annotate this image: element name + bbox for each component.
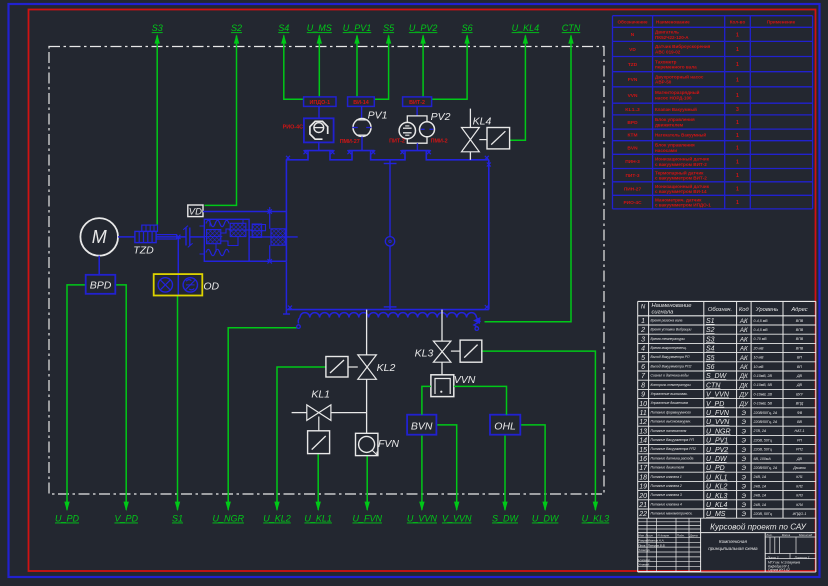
wire sensor1 to pipe (318, 142, 320, 150)
block IPDO-1 (304, 97, 336, 107)
svg-text:насосами: насосами (655, 148, 677, 153)
svg-text:Э: Э (742, 484, 747, 491)
svg-text:Иванов А.А.: Иванов А.А. (648, 538, 665, 542)
wire U_KL2 (263, 367, 326, 524)
svg-text:ДУ: ДУ (739, 392, 749, 399)
svg-text:Питание манометрическ.: Питание манометрическ. (651, 512, 693, 516)
svg-text:U_PV1: U_PV1 (343, 23, 372, 33)
svg-text:АК: АК (739, 355, 748, 362)
svg-text:4: 4 (641, 346, 645, 353)
svg-text:Наименование: Наименование (656, 20, 690, 25)
gauge PV1 (340, 106, 388, 150)
svg-text:VD: VD (629, 47, 636, 53)
svg-text:KL3: KL3 (415, 348, 434, 360)
svg-text:ИПДО-1: ИПДО-1 (310, 100, 331, 106)
actuator KL4 (479, 128, 509, 149)
svg-text:220В, 50Гц: 220В, 50Гц (753, 438, 772, 442)
svg-text:U_FVN: U_FVN (706, 410, 730, 417)
svg-text:ПИТ-3: ПИТ-3 (625, 173, 639, 179)
svg-text:Обознач.: Обознач. (708, 307, 732, 313)
svg-text:Время уставки Вибрации: Время уставки Вибрации (651, 328, 692, 332)
wire U_DW (520, 425, 560, 524)
svg-text:0-4,5 мВ: 0-4,5 мВ (754, 319, 769, 323)
svg-text:U_DW: U_DW (706, 456, 728, 463)
svg-text:U_DW: U_DW (532, 514, 560, 524)
wire shaft to OD (177, 237, 179, 296)
dashed white frame (49, 47, 604, 495)
svg-text:10 мВ: 10 мВ (754, 356, 764, 360)
svg-text:Применение: Применение (767, 20, 796, 25)
svg-text:KL1..3: KL1..3 (625, 107, 640, 113)
wire U_PV2 (409, 23, 438, 97)
wire S2 (205, 23, 243, 205)
svg-text:ПК52Ч22-120-А: ПК52Ч22-120-А (655, 35, 689, 40)
component table (613, 16, 813, 209)
svg-text:S5: S5 (383, 23, 395, 33)
block OD (yellow) (154, 274, 220, 295)
chamber bottom (286, 306, 488, 310)
svg-text:1: 1 (736, 200, 739, 206)
svg-text:24В, 1А: 24В, 1А (753, 484, 767, 488)
svg-text:Питание клапана 3: Питание клапана 3 (651, 493, 682, 497)
svg-text:CTN: CTN (562, 23, 581, 33)
gauge PV2 (389, 106, 450, 150)
svg-text:Питание Вакуумметра РП2: Питание Вакуумметра РП2 (651, 447, 696, 451)
svg-text:U_MS: U_MS (307, 23, 332, 33)
svg-text:3: 3 (641, 336, 645, 343)
svg-text:19: 19 (639, 484, 647, 491)
svg-text:22: 22 (638, 511, 647, 518)
title block (638, 518, 816, 572)
svg-text:Э: Э (742, 511, 747, 518)
svg-text:Питание клапана 2: Питание клапана 2 (651, 484, 682, 488)
svg-text:11: 11 (639, 410, 646, 417)
svg-text:КЛ1: КЛ1 (796, 475, 803, 479)
svg-text:Кол-во: Кол-во (730, 20, 746, 25)
svg-text:Лит.: Лит. (765, 533, 773, 537)
sensor RIO-4C (283, 118, 334, 142)
svg-text:U_PV1: U_PV1 (706, 438, 728, 445)
svg-text:5: 5 (641, 355, 645, 362)
svg-text:S2: S2 (706, 327, 715, 334)
svg-text:S1: S1 (172, 514, 183, 524)
svg-text:ВВ: ВВ (797, 420, 802, 424)
svg-text:U_NGR: U_NGR (212, 514, 244, 524)
coupling TZD (133, 225, 157, 256)
svg-text:V_VVN: V_VVN (442, 514, 472, 524)
svg-text:V_PD: V_PD (114, 514, 138, 524)
svg-text:U_KL2: U_KL2 (706, 484, 728, 491)
chamber left wall (285, 160, 287, 261)
svg-text:S1: S1 (706, 318, 715, 325)
svg-text:Курсовой проект по САУ: Курсовой проект по САУ (710, 523, 806, 532)
svg-text:АК: АК (739, 327, 748, 334)
wire U_KL1 (304, 454, 332, 524)
svg-text:U_KL3: U_KL3 (582, 514, 610, 524)
svg-text:Дата: Дата (689, 534, 698, 538)
svg-text:Питание высоковакуумн.: Питание высоковакуумн. (651, 420, 692, 424)
svg-text:8: 8 (641, 382, 645, 389)
svg-text:U_KL1: U_KL1 (304, 514, 332, 524)
svg-text:принципиальная схема: принципиальная схема (708, 546, 758, 551)
svg-text:Адрес: Адрес (790, 307, 807, 313)
wire V_VVN (436, 425, 472, 524)
svg-text:ДВ: ДВ (796, 457, 803, 461)
svg-text:1: 1 (736, 133, 739, 139)
svg-text:Э: Э (742, 502, 747, 509)
svg-text:U_PV2: U_PV2 (706, 447, 728, 454)
svg-text:Ионизационный датчик: Ионизационный датчик (655, 183, 710, 189)
wire U_PD (55, 285, 86, 524)
svg-text:TZD: TZD (133, 244, 154, 256)
svg-text:0-10мВ, 2В: 0-10мВ, 2В (754, 392, 773, 396)
chamber center line + gauge (384, 160, 397, 310)
svg-text:ВП: ВП (797, 356, 802, 360)
svg-text:S_DW: S_DW (706, 373, 728, 380)
svg-text:Пров.: Пров. (638, 543, 646, 547)
svg-text:3: 3 (736, 107, 739, 113)
svg-text:Изм. Лист: Изм. Лист (638, 534, 653, 538)
pipe VD to chamber (203, 207, 286, 214)
wire IPDO-1 to sensor (318, 106, 320, 118)
svg-text:2: 2 (640, 327, 645, 334)
actuator KL3 (451, 340, 482, 362)
svg-text:S4: S4 (706, 346, 715, 353)
block BPD (86, 275, 116, 294)
svg-text:V_VVN: V_VVN (706, 392, 730, 399)
svg-text:ВИТ-2: ВИТ-2 (409, 100, 425, 106)
svg-text:КЛ3: КЛ3 (796, 494, 803, 498)
svg-text:Э: Э (742, 447, 747, 454)
svg-text:KL2: KL2 (377, 362, 396, 374)
svg-text:FVN: FVN (378, 438, 399, 450)
chamber right wall (485, 160, 491, 310)
svg-text:Питание датчика расхода: Питание датчика расхода (651, 456, 694, 460)
svg-text:1: 1 (736, 120, 739, 126)
svg-text:сигнала: сигнала (652, 310, 675, 316)
svg-text:Код: Код (739, 307, 750, 313)
wire U_KL3 (482, 351, 609, 523)
svg-text:ПИН-3: ПИН-3 (625, 159, 640, 165)
svg-text:S5: S5 (706, 355, 715, 362)
svg-text:ИПДО-1: ИПДО-1 (793, 512, 807, 516)
svg-text:Время разгона вала: Время разгона вала (651, 318, 683, 322)
svg-text:Двухроторный насос: Двухроторный насос (655, 73, 704, 79)
svg-text:Лист 1: Лист 1 (766, 556, 779, 560)
svg-text:S_DW: S_DW (492, 514, 520, 524)
svg-text:РП2: РП2 (796, 448, 803, 452)
svg-text:Натекатель Вакуумный: Натекатель Вакуумный (655, 133, 706, 138)
svg-text:1: 1 (736, 187, 739, 193)
svg-text:Э: Э (742, 428, 747, 435)
svg-text:Т.контр.: Т.контр. (638, 548, 650, 552)
valve KL1 (292, 389, 367, 431)
svg-text:Обозначение: Обозначение (617, 19, 647, 25)
svg-text:КТМ: КТМ (628, 133, 638, 139)
sensor VD (188, 205, 203, 217)
svg-text:S3: S3 (706, 336, 715, 343)
block VIT-2 (403, 97, 432, 107)
wire U_KL4 (510, 23, 540, 140)
valve KL2 (358, 355, 396, 379)
pump outlet pipe (283, 261, 290, 314)
pump FVN (356, 433, 400, 455)
svg-text:1: 1 (736, 93, 739, 99)
svg-text:ВПВ: ВПВ (796, 328, 804, 332)
wire V_PD (114, 285, 138, 524)
svg-text:ВП: ВП (797, 365, 802, 369)
svg-text:1: 1 (736, 47, 739, 53)
wire U_MS (307, 23, 332, 97)
svg-text:Питание форвакуумного: Питание форвакуумного (651, 410, 692, 414)
svg-text:13: 13 (639, 428, 647, 435)
svg-text:Питание Вакуумметра РП: Питание Вакуумметра РП (651, 438, 695, 442)
svg-text:S4: S4 (278, 23, 289, 33)
svg-text:Э: Э (742, 419, 747, 426)
motor M (80, 218, 118, 256)
svg-text:с вакуумметром ИПДО-1: с вакуумметром ИПДО-1 (655, 203, 711, 208)
svg-text:ВПВ: ВПВ (796, 337, 804, 341)
svg-text:V_PD: V_PD (706, 401, 724, 408)
svg-text:ДК: ДК (739, 382, 748, 389)
svg-text:движителем: движителем (655, 122, 684, 127)
wire S5 (374, 23, 395, 99)
svg-text:0-10мВ, 2В: 0-10мВ, 2В (754, 374, 773, 378)
svg-text:с вакуумметром ВИ-14: с вакуумметром ВИ-14 (655, 189, 707, 194)
svg-text:1: 1 (736, 146, 739, 152)
svg-text:VVN: VVN (628, 93, 638, 99)
svg-text:Э: Э (742, 493, 747, 500)
wire U_NGR (212, 328, 297, 524)
svg-text:U_KL3: U_KL3 (706, 493, 728, 500)
svg-text:Э: Э (742, 410, 747, 417)
wire CTN (485, 23, 581, 322)
svg-text:АВС 019-02: АВС 019-02 (655, 49, 681, 54)
valve KL3 (415, 341, 451, 362)
wire motor to BPD (98, 256, 100, 275)
svg-text:10 мВ: 10 мВ (754, 365, 764, 369)
svg-text:KL1: KL1 (311, 389, 330, 401)
svg-text:N докум.: N докум. (658, 534, 670, 538)
svg-text:РИО-4С: РИО-4С (283, 125, 303, 131)
svg-text:BPD: BPD (90, 280, 112, 292)
svg-text:Датчик Виброускорения: Датчик Виброускорения (655, 43, 711, 49)
svg-text:Листов 1: Листов 1 (793, 556, 809, 560)
svg-text:24В, 1А: 24В, 1А (753, 494, 767, 498)
svg-text:24В, 1А: 24В, 1А (753, 475, 767, 479)
svg-text:Контроль температуры: Контроль температуры (651, 383, 692, 387)
svg-text:9: 9 (641, 392, 645, 399)
svg-text:Э: Э (742, 474, 747, 481)
svg-text:14: 14 (639, 438, 647, 445)
svg-text:S3: S3 (152, 23, 163, 33)
svg-text:Уровень: Уровень (755, 307, 778, 313)
svg-text:Управление движением: Управление движением (651, 401, 689, 405)
svg-text:PV1: PV1 (368, 110, 388, 122)
wire U_VVN (407, 435, 438, 524)
svg-text:ВПВ: ВПВ (796, 319, 804, 323)
svg-text:TZD: TZD (628, 62, 638, 68)
svg-text:1: 1 (736, 77, 739, 83)
svg-text:6: 6 (641, 364, 645, 371)
svg-text:CTN: CTN (706, 382, 721, 389)
svg-text:АК: АК (739, 336, 748, 343)
pipe KL3 to VVN (441, 362, 443, 375)
svg-text:Петров В.В.: Петров В.В. (648, 543, 666, 547)
svg-text:S6: S6 (706, 364, 715, 371)
svg-text:220В/50Гц, 2А: 220В/50Гц, 2А (753, 411, 778, 415)
svg-text:BVN: BVN (627, 145, 638, 151)
shaft (118, 235, 204, 239)
flexible coupling (183, 226, 192, 248)
svg-text:Э: Э (742, 465, 747, 472)
svg-text:ВПД: ВПД (796, 402, 804, 406)
svg-text:FVN: FVN (628, 77, 638, 83)
actuator KL1 (308, 431, 330, 454)
svg-text:Комплексная: Комплексная (719, 539, 748, 544)
svg-text:ВИ-14: ВИ-14 (353, 100, 369, 106)
svg-text:24В, 1А: 24В, 1А (753, 503, 767, 507)
svg-text:Наименование: Наименование (652, 303, 693, 309)
svg-text:ПМИ-27: ПМИ-27 (340, 139, 360, 145)
svg-text:27В, 2А: 27В, 2А (753, 429, 767, 433)
svg-text:M: M (92, 227, 107, 247)
svg-text:21: 21 (638, 502, 647, 509)
svg-text:ФВ: ФВ (797, 411, 803, 415)
wire U_FVN (352, 456, 382, 524)
block VI-14 (348, 97, 375, 107)
svg-text:S2: S2 (231, 23, 242, 33)
pump NGR body (204, 219, 286, 263)
svg-text:0-10мВ, 5В: 0-10мВ, 5В (754, 402, 773, 406)
svg-text:U_NGR: U_NGR (706, 428, 731, 435)
svg-text:Группа ИУ1-62: Группа ИУ1-62 (768, 568, 790, 572)
block BVN (407, 415, 436, 435)
svg-text:АК: АК (739, 318, 748, 325)
svg-text:16: 16 (639, 456, 647, 463)
svg-text:Магниторазрядный: Магниторазрядный (655, 89, 700, 95)
svg-text:U_PD: U_PD (706, 465, 725, 472)
svg-text:Клапан Вакуумный: Клапан Вакуумный (655, 107, 697, 112)
svg-text:220В, 50Гц: 220В, 50Гц (753, 512, 772, 516)
svg-text:Время микроперемещ.: Время микроперемещ. (651, 346, 687, 350)
svg-text:OHL: OHL (494, 420, 516, 432)
svg-text:ПМИ-2: ПМИ-2 (431, 139, 448, 145)
svg-text:PV2: PV2 (431, 111, 451, 123)
svg-text:с вакуумметром ВИТ-2: с вакуумметром ВИТ-2 (655, 176, 707, 181)
block OHL (490, 415, 520, 435)
svg-text:ДК: ДК (739, 373, 748, 380)
pipe chamber to KL3 (441, 310, 443, 342)
svg-text:18: 18 (639, 474, 647, 481)
svg-text:6В, 100мА: 6В, 100мА (754, 457, 772, 461)
svg-text:1: 1 (736, 62, 739, 68)
svg-text:OD: OD (203, 280, 219, 292)
svg-text:S6: S6 (462, 23, 473, 33)
svg-text:Подп.: Подп. (677, 534, 685, 538)
svg-text:20 мВ: 20 мВ (753, 346, 764, 350)
svg-text:переменного вала: переменного вала (655, 65, 697, 70)
pipe chamber to KL2 (366, 310, 368, 355)
svg-text:U_KL4: U_KL4 (706, 502, 728, 509)
svg-text:VVN: VVN (454, 374, 476, 386)
svg-text:ВПВ: ВПВ (796, 346, 804, 350)
svg-text:КЛ4: КЛ4 (796, 503, 803, 507)
svg-text:насос НОРД-100: насос НОРД-100 (655, 95, 692, 100)
svg-text:U_PV2: U_PV2 (409, 23, 438, 33)
svg-text:N: N (641, 305, 646, 311)
svg-text:Утверд.: Утверд. (638, 563, 650, 567)
svg-text:U_KL4: U_KL4 (512, 23, 540, 33)
svg-text:U_VVN: U_VVN (407, 514, 438, 524)
svg-text:КЛ2: КЛ2 (796, 484, 803, 488)
svg-text:15: 15 (639, 447, 647, 454)
svg-text:220В/50Гц, 2А: 220В/50Гц, 2А (753, 420, 778, 424)
svg-text:ВУУ: ВУУ (796, 392, 803, 396)
wire S6 (432, 23, 473, 99)
svg-text:BVN: BVN (411, 420, 433, 432)
svg-text:KL4: KL4 (473, 116, 492, 128)
svg-text:U_VVN: U_VVN (706, 419, 730, 426)
svg-text:Э: Э (742, 456, 747, 463)
svg-text:U_KL2: U_KL2 (263, 514, 291, 524)
wire S1 (172, 296, 183, 524)
wire VVN to BVN (422, 386, 431, 414)
wire S4 (278, 23, 304, 99)
svg-text:Питание клапана 1: Питание клапана 1 (651, 475, 682, 479)
svg-text:N: N (631, 32, 635, 38)
svg-text:Управление высоковак.: Управление высоковак. (651, 392, 688, 396)
svg-text:220В/50Гц, 2А: 220В/50Гц, 2А (753, 466, 778, 470)
svg-text:Э: Э (742, 438, 747, 445)
svg-text:20: 20 (638, 493, 647, 500)
svg-text:АК: АК (739, 364, 748, 371)
svg-text:10: 10 (639, 401, 647, 408)
svg-text:НАТ-1: НАТ-1 (794, 429, 804, 433)
svg-text:Движок: Движок (792, 466, 806, 470)
svg-text:ДУ: ДУ (739, 401, 749, 408)
svg-text:Питание движителя: Питание движителя (651, 466, 685, 470)
svg-text:ПИН-27: ПИН-27 (624, 186, 642, 192)
svg-text:Ионизационный датчик: Ионизационный датчик (655, 156, 710, 162)
wire S3 (152, 23, 163, 225)
valve KL4 (462, 109, 492, 160)
svg-text:1: 1 (736, 32, 739, 38)
svg-text:17: 17 (639, 465, 648, 472)
svg-text:Масштаб: Масштаб (799, 533, 812, 537)
svg-text:12: 12 (639, 419, 647, 426)
svg-text:АК: АК (739, 346, 748, 353)
svg-text:Питание клапана 4: Питание клапана 4 (651, 502, 682, 506)
svg-text:U_KL1: U_KL1 (706, 474, 728, 481)
svg-text:1: 1 (736, 173, 739, 179)
svg-text:220В, 50Гц: 220В, 50Гц (753, 448, 772, 452)
svg-text:1: 1 (736, 159, 739, 165)
svg-text:U_PD: U_PD (55, 514, 80, 524)
svg-text:Питание натекателя: Питание натекателя (651, 429, 687, 433)
svg-text:ДВ: ДВ (796, 374, 803, 378)
svg-text:U_MS: U_MS (706, 511, 726, 518)
svg-text:Термопарный датчик: Термопарный датчик (655, 169, 704, 175)
signal table (638, 301, 816, 518)
chamber top pipe (286, 150, 489, 160)
actuator KL2 (326, 357, 358, 378)
shaft junction node (176, 235, 180, 239)
svg-text:с вакуумметром ВИТ-2: с вакуумметром ВИТ-2 (655, 162, 707, 167)
svg-text:ПИТ-2: ПИТ-2 (389, 139, 405, 145)
svg-text:Н.контр.: Н.контр. (638, 558, 651, 562)
wire S_DW (492, 435, 520, 524)
